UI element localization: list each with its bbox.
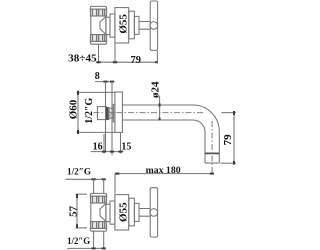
extension line pipe axis top drawing [98,45,100,64]
spout thread hatch [109,108,114,118]
svg-text:ø24: ø24 [150,81,162,98]
arrow tick max180 left [115,173,119,175]
ø24 leader line [159,96,161,120]
leader 1/2"G bottom [67,247,105,249]
Ø60 dimension line [77,92,79,132]
57 extension top [76,193,88,195]
Ø60 extension top [77,91,115,93]
top valve cap lower [90,41,106,44]
top valve knurled band lower [90,35,106,42]
bottom valve neck step [110,201,115,224]
svg-text:1/2″G: 1/2″G [67,167,92,177]
svg-text:Ø55: Ø55 [117,202,129,222]
svg-text:79: 79 [131,55,142,66]
dimension line 38÷45 and 79 [97,61,158,63]
max180 extension left [114,174,116,194]
svg-text:38÷45: 38÷45 [68,53,97,64]
bottom valve stem [139,209,150,217]
svg-text:max 180: max 180 [146,166,181,176]
svg-text:79: 79 [222,134,234,146]
79 dimension line vertical [233,113,235,164]
arrow tick pipe left (bottom leader) [92,247,96,249]
svg-text:15: 15 [121,142,131,153]
arrow tick 57 top [76,194,78,198]
bottom valve handle hub circle [150,209,158,217]
arrow tick pipe left (top leader) [92,178,96,180]
bottom valve flange step A [129,198,135,226]
leader 1/2"G spout [66,178,105,180]
spout centerline horizontal [94,112,206,114]
bottom valve body chevron [100,204,106,222]
bottom valve cap lower [90,228,106,231]
57 extension bottom [76,227,88,229]
arrow tick ø24 top [159,103,161,106]
spout flange back step [113,104,115,121]
top valve neck step [110,14,115,37]
spout tube bottom line [122,119,193,121]
arrow tick at 115 [113,61,117,63]
svg-text:57: 57 [67,205,79,217]
top valve flange step B [134,16,139,34]
bottom valve cap upper [90,193,106,196]
top valve cap upper [90,6,106,9]
spout downtube left [204,132,206,163]
spout aerator band [205,152,219,154]
arrow tick 79 bottom [233,161,235,165]
bottom supply pipe upper [94,179,104,193]
svg-text:1/2″G: 1/2″G [67,237,91,247]
wall line left [105,82,107,152]
spout outer bend [193,105,219,131]
top valve flange step A [129,11,135,39]
svg-text:Ø55: Ø55 [117,14,129,34]
arrow tick Ø60 bottom [77,130,79,134]
bottom valve knurled band lower [90,222,106,229]
dimension line 8 [95,81,115,83]
top valve stem [139,22,150,30]
arrow tick 15 right [118,151,122,153]
spout flange [115,92,123,132]
top valve knurled band upper [90,9,106,16]
svg-text:Ø60: Ø60 [67,99,79,119]
wall line right [111,82,113,155]
arrow tick Ø60 top [77,91,79,95]
bottom valve flange [115,195,129,230]
arrow tick 16/15 middle [110,151,114,153]
spout threaded tail [97,107,106,120]
top valve handle bar [150,1,157,50]
bottom valve body [91,203,106,222]
spout downtube right [218,131,220,163]
spout tube top line [122,104,193,106]
arrow tick pipe right (bottom leader) [102,247,106,249]
svg-text:16: 16 [93,142,103,153]
arrow tick 16 left [102,151,106,153]
spout inner bend [193,120,205,132]
arrow tick 79 top [233,111,235,115]
arrow tick max180 right [210,173,214,175]
spout vertical centerline [211,121,213,175]
arrow tick at 157.4 [155,61,157,63]
arrow tick 57 bottom [76,224,78,228]
svg-text:1/2″G: 1/2″G [83,97,95,123]
svg-text:8: 8 [95,71,100,82]
spout end edge [205,162,219,164]
arrow tick 8 right [110,81,114,83]
16/15 extension left [103,134,105,154]
dimension line max 180 [115,173,214,175]
bottom valve flange step B [134,203,139,221]
bottom valve neck [106,204,110,221]
Ø60 extension bottom [77,131,115,133]
top valve neck [106,17,110,34]
bottom valve handle bar [150,188,157,237]
arrow tick 8 left [103,81,107,83]
extension line handle end top drawing [156,51,158,64]
top valve handle hub circle [150,22,158,30]
top valve body [91,16,106,35]
spout lock nut [106,108,108,120]
arrow tick ø24 bottom [159,118,161,121]
79 extension top (spout) [222,112,237,114]
top valve body chevron [100,17,106,35]
arrow tick at 98.5 [96,61,100,63]
bottom valve knurled band upper [90,196,106,203]
top valve flange [115,8,129,43]
57 dimension line [76,194,78,228]
arrow tick pipe right (top leader) [102,178,106,180]
79 extension bottom (spout) [221,162,237,164]
16/15 extension right [120,133,122,154]
dimension line 16/15 [91,151,124,153]
extension line wall face top drawing [114,44,116,64]
bottom supply pipe lower [94,231,104,248]
